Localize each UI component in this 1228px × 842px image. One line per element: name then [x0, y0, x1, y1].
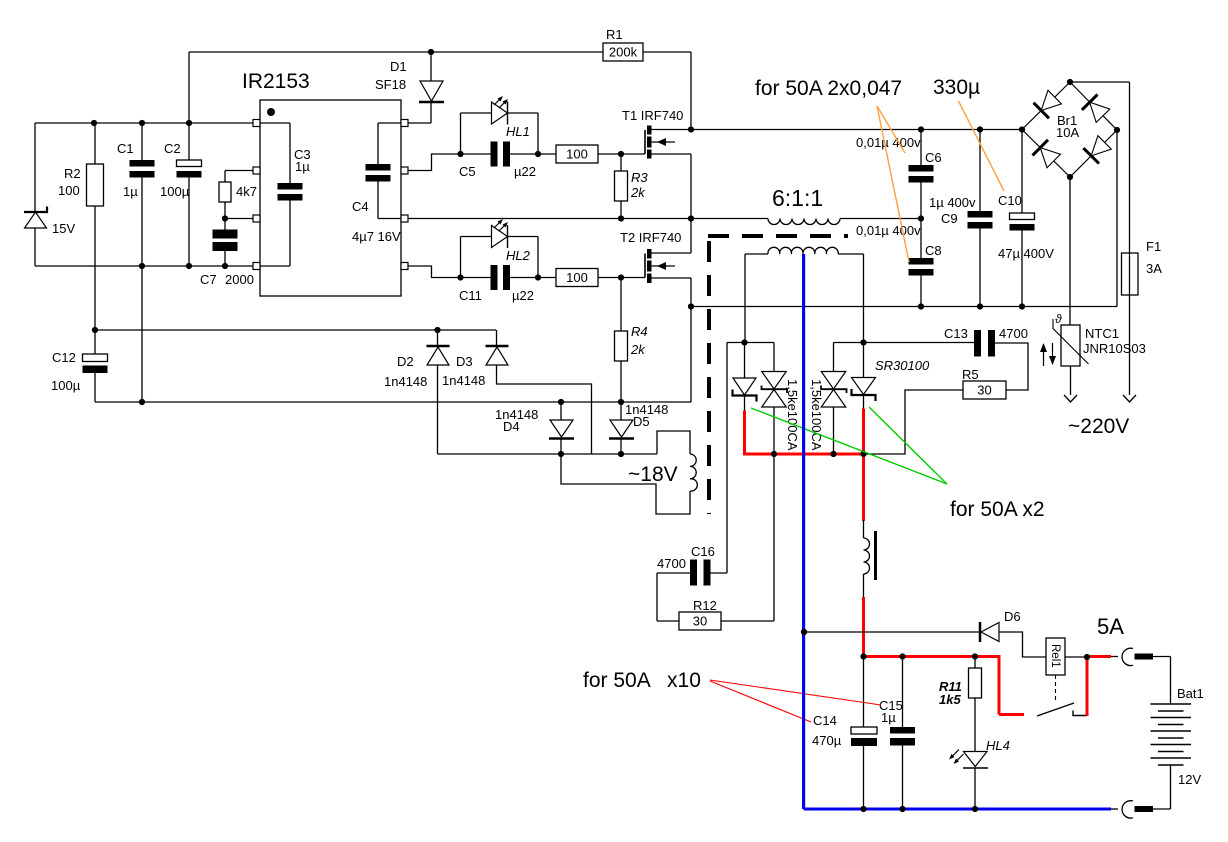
wire mid rail y=218.5 (pin R3 to primary)	[408, 218, 768, 220]
connector plug +	[1135, 654, 1154, 660]
svg-text:100µ: 100µ	[160, 184, 190, 199]
LED HL2 arrows	[494, 221, 501, 228]
wire relay feed rail y=632	[804, 631, 980, 633]
svg-text:100µ: 100µ	[51, 378, 81, 393]
wire battery - down	[1170, 765, 1172, 809]
battery Bat1 12V	[1151, 703, 1192, 705]
resistor R1 200k	[603, 43, 643, 61]
diode D3 1n4148	[496, 330, 498, 346]
pin L2	[253, 167, 260, 174]
svg-text:12V: 12V	[1178, 772, 1201, 787]
resistor R4 2k	[620, 278, 622, 332]
node right secondary junction	[860, 339, 866, 345]
resistor R11 1k5	[974, 657, 976, 669]
wire gate T1	[598, 153, 645, 155]
bridge rectifier Br1 10A frame	[1022, 82, 1117, 177]
capacitor C13 4700	[974, 330, 981, 357]
transformer core	[708, 234, 848, 238]
node VCC junctions	[91, 120, 97, 126]
node C11 left junction	[457, 274, 463, 280]
capacitor C8 0,01µ	[920, 219, 922, 259]
svg-text:C4: C4	[352, 199, 369, 214]
svg-text:C7: C7	[200, 272, 217, 287]
node C11 right junction	[535, 274, 541, 280]
diode D6	[979, 622, 982, 642]
thermistor NTC1 JNR10S03	[1069, 177, 1071, 325]
diode D4 1n4148	[560, 402, 562, 420]
svg-text:C14: C14	[813, 713, 837, 728]
node relay output junction	[1084, 654, 1090, 660]
node C5 right junction	[535, 151, 541, 157]
svg-text:1,5ke100CA: 1,5ke100CA	[785, 379, 800, 451]
svg-text:ϑ: ϑ	[1055, 312, 1062, 326]
node ground junctions	[139, 263, 145, 269]
svg-text:HL2: HL2	[506, 248, 531, 263]
wire switch to relay output (red)	[1086, 656, 1089, 716]
pin R2	[401, 167, 408, 174]
svg-text:JNR10S03: JNR10S03	[1083, 341, 1146, 356]
svg-text:D4: D4	[503, 419, 520, 434]
svg-text:HL4: HL4	[986, 738, 1010, 753]
svg-text:1,5ke100CA: 1,5ke100CA	[809, 379, 824, 451]
transformer secondary winding	[768, 247, 838, 254]
pin R1	[401, 120, 408, 127]
diode Br1 bottom-left	[1033, 140, 1049, 156]
node red rail junctions	[771, 451, 777, 457]
svg-text:C8: C8	[925, 243, 942, 258]
transistor T2 IRF740	[644, 254, 646, 278]
fuse F1 3A	[1122, 253, 1139, 295]
wire ground rail y=402	[95, 401, 691, 403]
transistor T1 IRF740	[644, 130, 646, 154]
wire stub to connector -	[1111, 808, 1118, 810]
wire mains arrow right	[1123, 395, 1136, 402]
wire output red rail y=656.5	[862, 655, 1001, 658]
svg-text:4700: 4700	[999, 326, 1028, 341]
connector socket +	[1122, 648, 1133, 665]
svg-text:1n4148: 1n4148	[442, 373, 485, 388]
svg-text:5A: 5A	[1097, 614, 1124, 639]
wire left rect top rail	[727, 342, 774, 344]
wire pin R2 to C5 block	[408, 154, 461, 171]
svg-text:C2: C2	[164, 141, 181, 156]
node R3 top junction	[618, 151, 624, 157]
node Br1 vertices	[1067, 79, 1073, 85]
diode D1 SF18	[430, 52, 432, 81]
wire C12 top rail y=330	[95, 329, 496, 331]
wire mains arrow left	[1064, 395, 1077, 402]
svg-text:30: 30	[693, 614, 707, 629]
capacitor C6 0,01µ	[920, 130, 922, 166]
node C5 left junction	[457, 151, 463, 157]
svg-text:0,01µ 400v: 0,01µ 400v	[856, 223, 921, 238]
svg-text:200k: 200k	[609, 45, 638, 60]
wire top rail to R1	[189, 51, 603, 53]
node C6/C8 mid junction	[918, 215, 924, 221]
pin L4	[253, 263, 260, 270]
inductor ~18V winding	[690, 454, 697, 491]
svg-text:for 50A x10: for 50A x10	[583, 669, 701, 692]
relay Rel1 coil	[1046, 638, 1065, 675]
zener diode 15V	[34, 123, 36, 212]
relay actuation dashed link	[1055, 675, 1057, 701]
svg-text:470µ: 470µ	[812, 733, 842, 748]
LED HL1	[460, 113, 462, 154]
wire ground rail y=266	[35, 265, 253, 267]
svg-text:C16: C16	[691, 544, 715, 559]
svg-text:6:1:1: 6:1:1	[772, 185, 823, 211]
resistor 100 (gate T2)	[556, 269, 598, 287]
node R4 top junction	[618, 274, 624, 280]
svg-text:R2: R2	[64, 166, 81, 181]
switch fixed contact	[1073, 711, 1087, 716]
svg-text:10A: 10A	[1056, 125, 1079, 140]
diode Br1 top-left	[1034, 103, 1050, 119]
NTC current arrows	[1043, 344, 1045, 366]
svg-text:HL1: HL1	[506, 124, 530, 139]
pin R3	[401, 215, 408, 222]
pin R4	[401, 263, 408, 270]
svg-text:R3: R3	[631, 170, 648, 185]
svg-text:100: 100	[566, 147, 588, 162]
node output rail junctions	[860, 653, 866, 659]
wire T2 source to ground rail	[690, 307, 692, 403]
node HV+ junctions	[918, 126, 924, 132]
svg-text:C1: C1	[117, 141, 134, 156]
svg-text:NTC1: NTC1	[1085, 326, 1119, 341]
node 4k7/C7 junction	[222, 215, 228, 221]
svg-text:IR2153: IR2153	[242, 70, 310, 93]
wire switch feed (red)	[998, 655, 1001, 715]
svg-text:T1 IRF740: T1 IRF740	[622, 108, 683, 123]
svg-text:1µ 400v: 1µ 400v	[929, 195, 976, 210]
snubber wire to R5	[864, 390, 964, 454]
resistor R2 100	[94, 123, 96, 164]
svg-text:2k: 2k	[630, 185, 646, 200]
diode VD2 SR30100	[863, 343, 865, 378]
wire C16 to R12	[656, 573, 658, 621]
svg-text:µ22: µ22	[512, 288, 534, 303]
node blue tap junction (top layer)	[801, 629, 807, 635]
svg-text:Bat1: Bat1	[1177, 686, 1204, 701]
inductor output choke	[863, 520, 865, 538]
wire pin R4 to C11 block	[408, 266, 461, 278]
wire HV+ rail y=129.5	[691, 129, 1022, 131]
node bottom rail junctions	[860, 806, 866, 812]
svg-text:1µ: 1µ	[123, 184, 138, 199]
capacitor C15 1µ	[902, 657, 904, 728]
TVS 1,5ke100CA left	[773, 343, 775, 372]
node T1 drain junction	[688, 126, 694, 132]
svg-text:Rel1: Rel1	[1049, 644, 1061, 668]
wire to 18V winding lower	[561, 454, 690, 514]
node HV- junctions	[918, 303, 924, 309]
diode D5 1n4148	[620, 402, 622, 420]
node R1/D1 junction	[428, 49, 434, 55]
capacitor C2 100µ	[188, 123, 190, 160]
capacitor C12 100µ	[94, 330, 96, 354]
capacitor C3 1µ	[260, 122, 290, 124]
capacitor C4 4µ7 16V	[378, 122, 401, 124]
capacitor C7 2000	[224, 219, 226, 230]
svg-text:T2 IRF740: T2 IRF740	[620, 230, 681, 245]
wire to 18V winding upper	[657, 431, 690, 454]
svg-text:C6: C6	[925, 150, 942, 165]
svg-text:100: 100	[58, 183, 80, 198]
capacitor C16 4700	[690, 560, 697, 586]
pin L1	[253, 120, 260, 127]
node left secondary junction	[741, 339, 747, 345]
svg-text:330µ: 330µ	[933, 76, 980, 99]
transformer primary winding	[768, 219, 840, 225]
node ground rail junctions	[139, 399, 145, 405]
resistor R5 30	[963, 381, 1006, 399]
resistor R3 2k	[620, 154, 622, 171]
wire D-bridge lower rail y=454	[438, 453, 658, 455]
svg-text:0,01µ 400v: 0,01µ 400v	[856, 135, 921, 150]
wire to battery +	[1153, 656, 1171, 658]
capacitor C10 47µ 400V	[1021, 130, 1023, 214]
svg-text:3A: 3A	[1146, 261, 1162, 276]
resistor R12 30	[679, 612, 721, 630]
svg-text:C12: C12	[52, 350, 76, 365]
switch arm	[1037, 703, 1074, 716]
svg-text:for 50A x2: for 50A x2	[950, 498, 1045, 521]
capacitor C9 1µ 400v	[979, 130, 981, 212]
svg-text:R1: R1	[606, 27, 623, 42]
TVS 1,5ke100CA right	[833, 343, 835, 372]
capacitor C11 µ22	[461, 277, 491, 279]
svg-text:C9: C9	[941, 211, 958, 226]
LED HL1 arrows	[494, 98, 501, 105]
LED HL2	[460, 237, 462, 278]
svg-text:100: 100	[566, 270, 588, 285]
capacitor C5 µ22	[461, 153, 491, 155]
wire HV- rail y=306.5	[691, 306, 1117, 308]
resistor 100 (gate T1)	[556, 145, 598, 163]
wire VCC rail y=123	[35, 122, 253, 124]
svg-text:4k7: 4k7	[236, 184, 257, 199]
svg-text:15V: 15V	[52, 221, 75, 236]
svg-text:D6: D6	[1004, 609, 1021, 624]
LED HL4 arrows	[951, 750, 959, 758]
wire R5 to C13	[995, 343, 1028, 390]
svg-text:D1: D1	[390, 59, 407, 74]
resistor 4k7	[225, 170, 253, 172]
svg-text:1k5: 1k5	[939, 692, 961, 707]
diode Br1 bottom-right	[1083, 148, 1099, 164]
svg-text:C10: C10	[998, 193, 1022, 208]
svg-text:~220V: ~220V	[1068, 415, 1129, 438]
svg-text:1µ: 1µ	[881, 710, 896, 725]
diode VD1 SR30100	[744, 343, 746, 379]
node T2 source junction	[688, 303, 694, 309]
svg-text:R12: R12	[693, 598, 717, 613]
capacitor C14 470µ	[863, 657, 865, 728]
connector socket -	[1122, 801, 1133, 818]
wire secondary center tap vertical (blue, top layer)	[802, 254, 805, 809]
LED HL4	[964, 752, 988, 767]
wire R12 to red rail	[721, 620, 774, 622]
svg-text:F1: F1	[1146, 239, 1161, 254]
svg-text:1µ: 1µ	[295, 159, 310, 174]
pin L3	[253, 215, 260, 222]
svg-text:C5: C5	[459, 164, 476, 179]
node D2 top junction	[434, 327, 440, 333]
node C12 top junction	[92, 327, 98, 333]
svg-text:1n4148: 1n4148	[384, 374, 427, 389]
wire Br1 AC top to fuse	[1070, 81, 1130, 83]
wire rectifier output (red)	[743, 411, 746, 456]
node D4/D5 bottom junctions	[558, 451, 564, 457]
svg-text:C11: C11	[459, 288, 482, 303]
svg-text:µ22: µ22	[514, 164, 536, 179]
svg-text:2k: 2k	[630, 342, 646, 357]
svg-text:4µ7 16V: 4µ7 16V	[352, 229, 401, 244]
svg-text:47µ 400V: 47µ 400V	[998, 246, 1054, 261]
diode D2 1n4148	[437, 330, 439, 346]
node blue tap junction	[801, 629, 807, 635]
wire stub to connector	[1111, 656, 1118, 658]
capacitor C1 1µ	[141, 123, 143, 160]
op-amp U1 IR2153 body	[260, 100, 401, 296]
svg-text:SR30100: SR30100	[875, 358, 930, 373]
svg-text:for 50A 2x0,047: for 50A 2x0,047	[755, 77, 902, 100]
wire gate T2	[598, 277, 645, 279]
svg-text:~18V: ~18V	[628, 463, 678, 486]
wire right rect top rail	[834, 342, 975, 344]
svg-text:C13: C13	[944, 326, 968, 341]
svg-text:D2: D2	[397, 354, 414, 369]
node half-bridge mid junction	[688, 215, 694, 221]
wire choke to output (red)	[862, 597, 865, 658]
node R3 bottom junction	[618, 215, 624, 221]
svg-text:SF18: SF18	[375, 77, 406, 92]
svg-text:D5: D5	[633, 414, 650, 429]
svg-text:2000: 2000	[225, 272, 254, 287]
connector plug -	[1135, 806, 1154, 812]
svg-text:D3: D3	[456, 354, 473, 369]
svg-text:R4: R4	[631, 324, 648, 339]
wire secondary center tap (blue)	[802, 254, 805, 809]
diode Br1 top-right	[1082, 95, 1098, 110]
svg-text:4700: 4700	[657, 556, 686, 571]
svg-text:30: 30	[977, 383, 991, 398]
svg-text:R5: R5	[962, 367, 979, 382]
